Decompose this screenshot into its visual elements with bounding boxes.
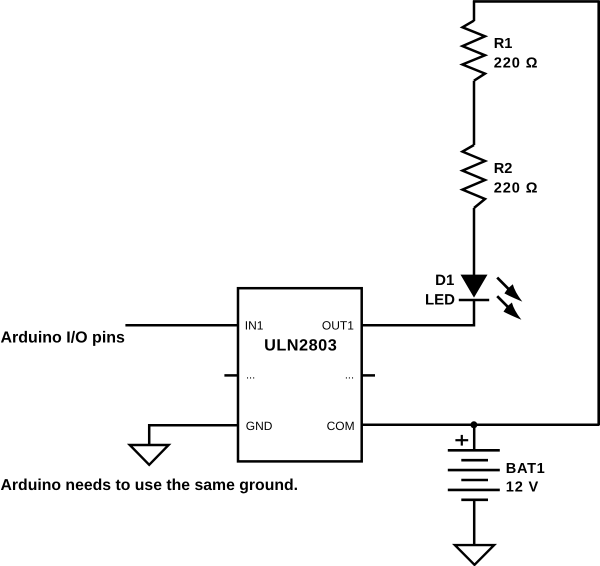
- svg-text:BAT1: BAT1: [506, 461, 546, 477]
- svg-text:D1: D1: [435, 272, 454, 289]
- junction node dot: [470, 421, 477, 428]
- ground symbol left stem: [148, 424, 151, 445]
- battery BAT1 plates: [448, 450, 500, 500]
- svg-text:LED: LED: [425, 291, 455, 308]
- wire GND: [149, 424, 238, 427]
- pin stub right ...: [361, 374, 375, 377]
- wire LED to corner: [362, 300, 475, 325]
- resistor R1: [463, 21, 486, 81]
- LED D1 cathode bar: [459, 299, 489, 302]
- wire R2 to LED: [473, 208, 476, 275]
- battery BAT1 top stub: [473, 425, 476, 450]
- battery BAT1 plus sign: [455, 435, 468, 446]
- LED D1 triangle: [461, 275, 488, 298]
- svg-text:220 Ω: 220 Ω: [494, 56, 539, 72]
- LED light arrow 1: [497, 278, 522, 302]
- svg-text:...: ...: [345, 370, 354, 382]
- battery bottom stem: [473, 500, 476, 546]
- svg-text:OUT1: OUT1: [322, 318, 354, 332]
- svg-text:COM: COM: [327, 419, 355, 433]
- wire top horizontal: [473, 0, 600, 3]
- svg-text:...: ...: [246, 370, 255, 382]
- resistor R2: [463, 145, 486, 208]
- wire COM to right edge: [361, 424, 599, 427]
- wire R1 to R2: [473, 81, 476, 145]
- ground symbol bottom triangle: [455, 545, 494, 565]
- svg-text:Arduino I/O pins: Arduino I/O pins: [1, 330, 126, 347]
- svg-text:GND: GND: [246, 419, 273, 433]
- svg-text:Arduino needs to use the same: Arduino needs to use the same ground.: [1, 477, 299, 494]
- wire right vertical: [597, 1, 600, 426]
- wire IN1: [125, 324, 238, 327]
- wire top stub to R1: [473, 1, 476, 22]
- svg-text:220 Ω: 220 Ω: [494, 181, 539, 197]
- svg-text:R2: R2: [494, 161, 513, 177]
- ground symbol left triangle: [130, 445, 169, 465]
- LED light arrow 2: [497, 296, 521, 320]
- IC U1 ULN2803 box: [238, 288, 362, 461]
- svg-text:12 V: 12 V: [506, 480, 539, 496]
- svg-text:R1: R1: [494, 36, 513, 52]
- svg-text:ULN2803: ULN2803: [264, 336, 337, 354]
- pin stub left ...: [224, 374, 238, 377]
- svg-text:IN1: IN1: [245, 318, 264, 332]
